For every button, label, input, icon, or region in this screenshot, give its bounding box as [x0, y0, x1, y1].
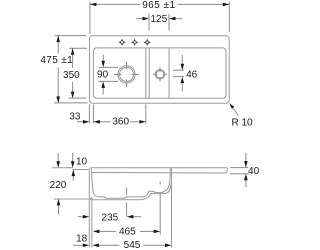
svg-text:40: 40 — [248, 166, 260, 177]
dimension 235 — [78, 216, 142, 218]
large drain centerline lower segment — [126, 203, 128, 217]
svg-text:18: 18 — [76, 234, 88, 245]
svg-text:475 ±1: 475 ±1 — [40, 55, 73, 66]
large drain centerline upper segment — [126, 187, 128, 194]
dimension 40 — [230, 153, 248, 188]
bowl inner profile — [91, 168, 170, 198]
large drain outer circle — [118, 66, 135, 83]
dimension 965 +/-1 — [90, 2, 229, 34]
large drain crosshair ticks — [114, 62, 139, 87]
bowl divider line right — [148, 48, 150, 98]
small drain inner circle — [156, 71, 164, 79]
dimension 475 +/-1 — [54, 36, 88, 103]
svg-text:235: 235 — [102, 212, 119, 223]
tap hole symbol 3 — [144, 39, 151, 46]
radius leader R 10 — [231, 106, 239, 116]
worktop line left A — [52, 167, 73, 169]
dimension 350 — [69, 48, 88, 98]
rim top surface line — [90, 168, 227, 173]
svg-text:350: 350 — [63, 70, 80, 81]
bowl bottom extension line left — [54, 198, 92, 200]
small drain crosshair ticks — [153, 67, 167, 81]
left outer wall extension line — [88, 199, 90, 248]
small drain centerline stub — [159, 181, 161, 184]
large drain inner circle — [120, 67, 134, 81]
tap hole symbol 1 — [118, 39, 125, 46]
svg-text:220: 220 — [50, 180, 67, 191]
dimension 360 — [99, 105, 145, 124]
svg-text:33: 33 — [69, 111, 81, 122]
small drain outer circle — [155, 70, 165, 80]
small bowl right edge — [168, 48, 170, 98]
svg-text:10: 10 — [76, 156, 88, 167]
SECTION VIEW — [52, 168, 227, 248]
small bowl right wall / 545 extension line — [171, 168, 173, 247]
left outer wall and bowl outer bottom — [89, 168, 171, 200]
dimension 90 — [99, 55, 119, 95]
dimension 465 — [99, 230, 154, 232]
bowl divider line left — [145, 48, 147, 98]
svg-text:125: 125 — [150, 14, 167, 25]
dimension 545 — [98, 244, 165, 246]
sink outer rim (top view) — [90, 36, 230, 103]
worktop line left B — [73, 169, 89, 171]
svg-text:360: 360 — [112, 117, 129, 128]
dimension 125 — [136, 14, 182, 31]
dimension 18 — [73, 244, 83, 246]
dimension 33 — [77, 105, 93, 124]
svg-text:465: 465 — [119, 226, 136, 237]
dimension 220 — [57, 153, 59, 215]
dimension 10 — [72, 153, 75, 181]
left inner wall extension line — [91, 197, 93, 248]
svg-text:965 ±1: 965 ±1 — [142, 0, 175, 11]
svg-text:R 10: R 10 — [231, 118, 253, 129]
rim underside line — [92, 172, 226, 175]
tap hole symbol 2 — [131, 39, 138, 46]
svg-text:545: 545 — [124, 240, 141, 250]
svg-text:90: 90 — [97, 70, 109, 81]
dimension 46 — [173, 55, 184, 92]
sink inner outline (top view) — [93, 48, 226, 98]
svg-text:46: 46 — [186, 69, 198, 80]
small drain centerline / 465 extension line — [159, 193, 161, 235]
